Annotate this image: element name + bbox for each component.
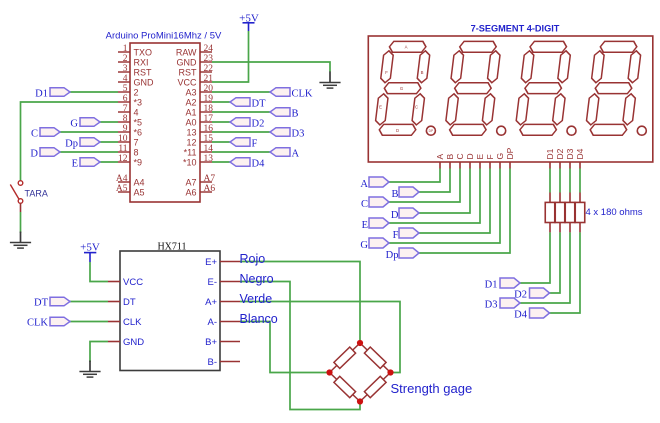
svg-text:D: D	[465, 153, 475, 159]
svg-text:16: 16	[204, 124, 214, 134]
svg-text:DP: DP	[429, 129, 433, 133]
svg-text:TXO: TXO	[134, 47, 153, 57]
svg-text:3: 3	[123, 64, 128, 74]
svg-text:21: 21	[204, 74, 214, 84]
svg-text:A5: A5	[116, 184, 128, 194]
svg-text:8: 8	[134, 147, 139, 157]
svg-text:D: D	[396, 128, 399, 133]
svg-text:17: 17	[204, 114, 214, 124]
svg-text:7: 7	[134, 137, 139, 147]
svg-text:CLK: CLK	[123, 317, 142, 328]
svg-text:D1: D1	[545, 148, 555, 159]
svg-text:A+: A+	[205, 297, 217, 308]
svg-text:15: 15	[204, 134, 214, 144]
svg-text:RXI: RXI	[134, 57, 149, 67]
svg-text:E: E	[72, 159, 78, 170]
svg-text:Rojo: Rojo	[240, 252, 266, 266]
svg-text:23: 23	[204, 54, 214, 64]
svg-text:TARA: TARA	[25, 188, 48, 198]
svg-text:Verde: Verde	[240, 292, 273, 306]
svg-text:Blanco: Blanco	[240, 312, 278, 326]
svg-text:13: 13	[204, 154, 214, 164]
svg-text:A: A	[360, 179, 368, 190]
svg-text:*6: *6	[134, 127, 143, 137]
svg-text:F: F	[485, 154, 495, 159]
svg-text:E: E	[475, 154, 485, 160]
svg-text:*10: *10	[183, 157, 197, 167]
svg-text:22: 22	[204, 64, 214, 74]
svg-text:VCC: VCC	[177, 77, 197, 87]
svg-text:D: D	[30, 149, 38, 160]
svg-text:A1: A1	[185, 107, 196, 117]
svg-text:7: 7	[123, 104, 128, 114]
svg-text:*9: *9	[134, 157, 143, 167]
svg-text:HX711: HX711	[157, 242, 186, 253]
svg-text:Strength gage: Strength gage	[391, 381, 473, 396]
svg-text:CLK: CLK	[292, 89, 313, 100]
svg-text:A4: A4	[116, 174, 128, 184]
svg-text:F: F	[252, 139, 258, 150]
svg-text:G: G	[360, 240, 368, 251]
svg-text:E: E	[362, 220, 368, 231]
svg-text:E: E	[379, 105, 382, 110]
svg-text:D1: D1	[485, 280, 498, 291]
svg-text:DT: DT	[252, 99, 267, 110]
svg-text:D4: D4	[252, 159, 266, 170]
svg-text:A4: A4	[134, 177, 145, 187]
svg-text:GND: GND	[123, 337, 144, 348]
svg-text:4: 4	[134, 107, 139, 117]
svg-text:Arduino ProMini16Mhz / 5V: Arduino ProMini16Mhz / 5V	[106, 31, 222, 42]
svg-text:B: B	[421, 70, 424, 75]
svg-text:D4: D4	[575, 148, 585, 159]
svg-text:*11: *11	[184, 147, 197, 157]
svg-text:A-: A-	[208, 317, 218, 328]
svg-text:11: 11	[118, 144, 127, 154]
svg-text:18: 18	[204, 104, 214, 114]
svg-text:2: 2	[134, 87, 139, 97]
svg-text:GND: GND	[177, 57, 198, 67]
svg-text:D2: D2	[555, 148, 565, 159]
svg-text:9: 9	[123, 124, 128, 134]
svg-text:C: C	[31, 129, 38, 140]
svg-text:C: C	[455, 153, 465, 159]
svg-text:A: A	[292, 149, 300, 160]
svg-text:VCC: VCC	[123, 277, 143, 288]
svg-text:5: 5	[123, 84, 128, 94]
svg-text:*5: *5	[134, 117, 143, 127]
svg-text:DP: DP	[505, 147, 515, 159]
svg-text:B: B	[445, 154, 455, 160]
svg-text:C: C	[361, 199, 368, 210]
svg-text:A3: A3	[185, 87, 196, 97]
svg-text:A6: A6	[204, 184, 216, 194]
svg-text:CLK: CLK	[27, 318, 48, 329]
svg-text:A2: A2	[185, 97, 196, 107]
svg-text:G: G	[495, 153, 505, 160]
svg-text:12: 12	[186, 137, 196, 147]
svg-text:B: B	[391, 189, 398, 200]
svg-text:+5V: +5V	[80, 242, 100, 254]
svg-text:DT: DT	[34, 298, 49, 309]
svg-text:D1: D1	[35, 89, 48, 100]
svg-text:6: 6	[123, 94, 128, 104]
svg-text:RST: RST	[179, 67, 198, 77]
svg-text:1: 1	[123, 44, 128, 54]
svg-text:4 x 180 ohms: 4 x 180 ohms	[586, 207, 643, 218]
svg-text:4: 4	[123, 74, 128, 84]
svg-text:D: D	[391, 210, 399, 221]
svg-text:A7: A7	[185, 177, 196, 187]
svg-text:RAW: RAW	[176, 47, 197, 57]
svg-text:RST: RST	[134, 67, 153, 77]
svg-text:20: 20	[204, 84, 214, 94]
svg-text:D4: D4	[514, 310, 528, 321]
svg-text:D3: D3	[292, 129, 305, 140]
svg-text:D2: D2	[252, 119, 265, 130]
svg-text:B: B	[292, 109, 299, 120]
svg-text:7-SEGMENT 4-DIGIT: 7-SEGMENT 4-DIGIT	[471, 24, 560, 34]
svg-text:C: C	[415, 105, 418, 110]
svg-text:A7: A7	[204, 174, 216, 184]
svg-text:2: 2	[123, 54, 128, 64]
svg-text:A0: A0	[185, 117, 196, 127]
svg-text:D3: D3	[565, 148, 575, 159]
svg-text:F: F	[385, 70, 388, 75]
svg-text:24: 24	[204, 44, 214, 54]
svg-text:B-: B-	[208, 357, 218, 368]
svg-text:*3: *3	[134, 97, 143, 107]
svg-text:Dp: Dp	[386, 250, 399, 261]
svg-text:D3: D3	[485, 300, 498, 311]
svg-text:14: 14	[204, 144, 214, 154]
svg-text:13: 13	[186, 127, 196, 137]
svg-text:A6: A6	[185, 187, 196, 197]
svg-text:10: 10	[118, 134, 128, 144]
svg-text:A5: A5	[134, 187, 145, 197]
svg-text:DT: DT	[123, 297, 136, 308]
svg-text:Negro: Negro	[240, 272, 274, 286]
svg-text:Dp: Dp	[65, 139, 78, 150]
svg-text:E+: E+	[205, 257, 217, 268]
svg-text:8: 8	[123, 114, 128, 124]
svg-text:B+: B+	[205, 337, 217, 348]
svg-text:A: A	[405, 45, 408, 50]
svg-text:F: F	[393, 230, 399, 241]
svg-text:A: A	[435, 154, 445, 160]
svg-text:12: 12	[118, 154, 128, 164]
svg-text:19: 19	[204, 94, 214, 104]
svg-text:G: G	[70, 119, 78, 130]
svg-text:E-: E-	[208, 277, 218, 288]
svg-text:GND: GND	[134, 77, 155, 87]
